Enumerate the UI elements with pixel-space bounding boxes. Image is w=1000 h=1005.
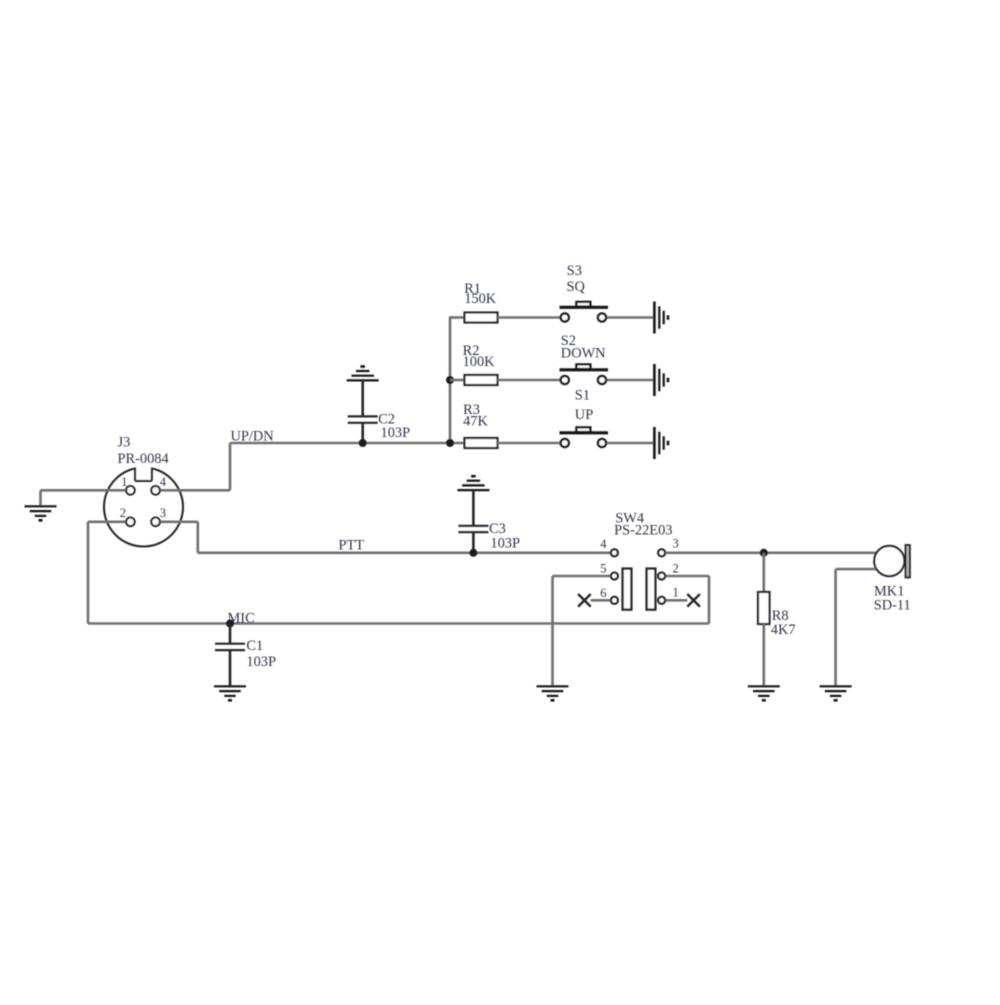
svg-text:J3: J3 [118, 435, 131, 451]
ground C1 [214, 685, 246, 687]
capacitor C3 [458, 525, 488, 527]
svg-text:SQ: SQ [567, 279, 586, 295]
wire PTT [198, 551, 611, 554]
svg-text:4K7: 4K7 [771, 622, 796, 638]
wire pin4 right [161, 489, 230, 492]
ground S1 [653, 427, 656, 459]
svg-text:150K: 150K [464, 291, 497, 307]
SW4 pin 6 [611, 597, 618, 604]
resistor R8 [758, 592, 770, 624]
wire C3 down [472, 532, 475, 553]
svg-text:1: 1 [673, 586, 679, 600]
wire UP/DN bus [230, 442, 465, 445]
capacitor C2 [348, 415, 378, 417]
ground J3 [25, 505, 57, 507]
wire R2 to S2 [498, 379, 561, 382]
junction R8 [760, 549, 768, 557]
wire pin1 to left [41, 489, 126, 492]
wire SW4 right vertical [708, 576, 711, 624]
junction MIC [226, 620, 234, 628]
no-connect X pin1 [687, 594, 700, 607]
capacitor C1 [215, 643, 245, 645]
connector J3 circle [104, 468, 183, 547]
wire down to MIC [87, 522, 90, 624]
svg-text:4: 4 [160, 475, 167, 489]
wire bus to R2 [450, 379, 465, 382]
wire down to PTT [197, 522, 200, 553]
wire gnd to C2 [361, 380, 364, 416]
svg-text:UP: UP [575, 407, 593, 423]
svg-text:2: 2 [673, 561, 679, 575]
wire S2 to ground [607, 379, 655, 382]
wire gnd to C3 [472, 490, 475, 526]
wire bus to R1 [449, 316, 465, 319]
wire MIC to C1 [229, 624, 232, 644]
svg-text:103P: 103P [246, 654, 276, 670]
ground C2 [347, 379, 379, 381]
svg-text:3: 3 [673, 536, 679, 550]
SW4 pin 3 [658, 549, 665, 556]
svg-text:PTT: PTT [339, 537, 365, 553]
wire pin1 to X [666, 599, 688, 602]
wire SW4 ground stem [551, 624, 554, 687]
SW4 pin 1 [658, 597, 665, 604]
wire X to pin6 [591, 599, 611, 602]
wire S3 to ground [607, 316, 655, 319]
J3 pin 3 [151, 518, 160, 527]
switch S3 [560, 306, 609, 309]
wire S1 to ground [607, 442, 655, 445]
wire mic ground stem [834, 569, 837, 686]
wire pin3 to mic line [666, 551, 876, 554]
wire pin5 left [553, 575, 611, 578]
svg-text:1: 1 [121, 475, 127, 489]
resistor R3 [465, 438, 498, 448]
ground S3 [653, 302, 656, 334]
ground SW4 [537, 685, 569, 687]
switch S1 [560, 431, 609, 434]
J3 pin 1 [126, 486, 135, 495]
svg-text:PR-0084: PR-0084 [118, 451, 169, 467]
J3 pin 2 [126, 518, 135, 527]
resistor R1 [465, 313, 498, 323]
J3 pin 4 [151, 486, 160, 495]
svg-text:PS-22E03: PS-22E03 [614, 523, 672, 539]
SW4 slider bar left [623, 569, 632, 610]
SW4 pin 4 [611, 549, 618, 556]
wire C2 down [361, 423, 364, 443]
svg-text:6: 6 [600, 586, 606, 600]
svg-text:SD-11: SD-11 [874, 597, 911, 613]
wire SW4 left vertical [551, 576, 554, 624]
wire MIC [88, 622, 709, 625]
junction C3 [469, 549, 477, 557]
ground S2 [653, 364, 656, 396]
svg-text:100K: 100K [463, 354, 496, 370]
svg-text:103P: 103P [490, 536, 520, 552]
wire pin2 right [666, 575, 709, 578]
wire up to UP/DN [229, 443, 232, 490]
microphone MK1 bar [906, 545, 910, 577]
ground C3 [457, 489, 489, 491]
ground R8 [748, 685, 780, 687]
junction R3 row [446, 439, 454, 447]
svg-text:C1: C1 [246, 638, 263, 654]
junction C2 [359, 439, 367, 447]
wire mic return [836, 568, 876, 571]
svg-text:3: 3 [160, 506, 166, 520]
SW4 slider bar right [647, 569, 656, 610]
wire down to ground [39, 490, 42, 506]
svg-text:S1: S1 [575, 388, 590, 404]
wire pin2 left [88, 520, 125, 523]
junction R2 row [446, 376, 454, 384]
wire R8 down [762, 624, 765, 686]
svg-text:C3: C3 [489, 521, 506, 537]
wire C1 down [229, 650, 232, 686]
SW4 pin 2 [658, 573, 665, 580]
svg-text:47K: 47K [463, 414, 488, 430]
microphone MK1 circle [874, 546, 904, 576]
wire R1 to S3 [498, 316, 561, 319]
resistor R2 [465, 375, 498, 385]
svg-text:5: 5 [600, 562, 606, 576]
SW4 pin 5 [611, 573, 618, 580]
wire bus vertical [449, 318, 452, 444]
switch S2 [560, 368, 609, 371]
wire R3 to S1 [498, 442, 561, 445]
svg-text:DOWN: DOWN [561, 345, 606, 361]
no-connect X pin6 [578, 594, 591, 607]
ground MK1 [820, 685, 852, 687]
wire pin3 right [161, 520, 198, 523]
svg-text:2: 2 [120, 506, 126, 520]
svg-text:4: 4 [600, 537, 607, 551]
wire to R8 [762, 553, 765, 592]
svg-text:S3: S3 [567, 263, 582, 279]
svg-text:103P: 103P [381, 425, 411, 441]
